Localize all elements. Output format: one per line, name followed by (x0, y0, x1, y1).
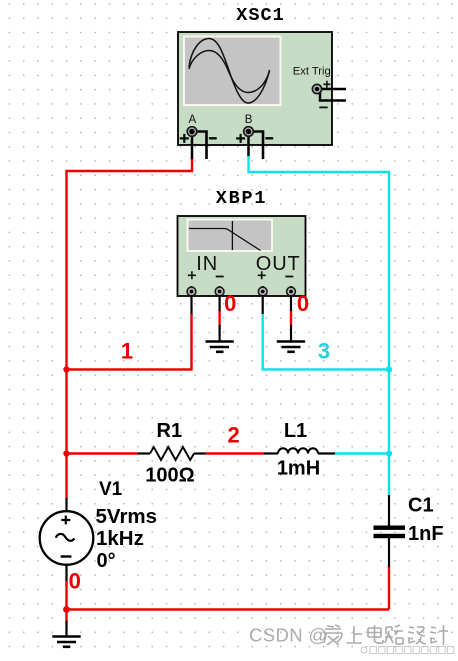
A plus sign (180, 134, 189, 143)
svg-text:L1: L1 (284, 420, 307, 442)
Ext Trig terminal (312, 84, 321, 93)
bode plot axis (231, 221, 233, 250)
oscilloscope XSC1 body (178, 32, 332, 145)
bode plotter XBP1 body (178, 216, 306, 296)
svg-text:1kHz: 1kHz (96, 527, 144, 550)
A hook lead (195, 132, 207, 160)
svg-text:IN: IN (196, 253, 218, 275)
svg-text:5Vrms: 5Vrms (96, 505, 158, 528)
V1 bottom lead black (65, 564, 67, 582)
terminal A (187, 127, 197, 137)
svg-text:0°: 0° (97, 550, 116, 572)
IN- lead black top (219, 295, 221, 312)
scope trace channel B (small sine) (189, 51, 270, 93)
OUT- wire red segment (290, 311, 292, 325)
A minus sign (209, 137, 217, 139)
wire net1: scope A to left rail (67, 159, 193, 499)
ground at IN- (206, 342, 234, 352)
svg-text:B: B (245, 114, 253, 126)
OUT plus sign (258, 271, 266, 279)
svg-text:100Ω: 100Ω (145, 465, 194, 487)
svg-text:2: 2 (227, 423, 239, 448)
B plus sign (236, 134, 245, 143)
OUT- terminal (287, 286, 296, 296)
wire net1: rail to R1 (67, 452, 138, 454)
svg-text:R1: R1 (157, 420, 183, 442)
junction dot net1 at R1 row (63, 450, 69, 456)
source V1 (40, 511, 94, 565)
junction dot net3 rail (386, 366, 392, 372)
OUT- lead black top (290, 295, 292, 312)
ground stem at V1 (65, 621, 67, 637)
wire net2: R1 to L1 (206, 452, 265, 454)
resistor R1 (138, 447, 206, 460)
IN+ lead black (190, 295, 192, 315)
junction dot net0 (63, 606, 70, 613)
inductor L1 (264, 448, 335, 453)
A plus lead (black) (191, 134, 194, 160)
svg-text:1: 1 (121, 339, 133, 364)
Ext Trig plus sign (323, 81, 330, 88)
ground at V1 (52, 637, 80, 647)
OUT+ terminal (258, 286, 267, 296)
svg-text:Ext Trig: Ext Trig (293, 66, 331, 78)
svg-text:C1: C1 (408, 495, 434, 517)
Ext Trig minus sign (319, 106, 327, 108)
V1 top lead black (65, 498, 67, 512)
svg-text:XSC1: XSC1 (236, 5, 284, 26)
wire net3: OUT+ down and right to rail (263, 314, 389, 370)
wire net1: IN+ down and left to rail (67, 314, 192, 370)
B hook lead (252, 132, 264, 160)
junction dot net1 rail (63, 366, 69, 372)
scope trace channel A (large sine) (189, 39, 270, 104)
svg-text:1mH: 1mH (277, 458, 320, 480)
svg-text:CSDN @: CSDN @ (249, 625, 328, 646)
B plus lead (black) (247, 134, 250, 157)
capacitor C1 (374, 526, 406, 539)
svg-text:1nF: 1nF (408, 523, 444, 545)
terminal B (244, 127, 254, 137)
wire net0: bottom horizontal (67, 608, 390, 610)
IN- wire red segment (218, 311, 220, 325)
Ext Trig stub wires (320, 89, 346, 101)
wire net0: V1 to bottom junction (65, 581, 67, 610)
wire net0: junction down red (65, 610, 67, 623)
IN- ground stem (219, 325, 221, 342)
junction dot net3 at L1 row (386, 450, 392, 456)
IN minus sign (216, 276, 224, 278)
watermark CJK glyphs (stylized) (324, 625, 449, 645)
IN plus sign (188, 271, 196, 279)
IN- terminal (215, 286, 224, 296)
wire net3: L1 to rail (335, 452, 389, 454)
B minus sign (265, 137, 273, 139)
OUT minus sign (285, 276, 293, 278)
svg-text:0: 0 (224, 291, 236, 316)
svg-text:3: 3 (318, 339, 330, 364)
ground at OUT- (277, 342, 305, 352)
svg-text:V1: V1 (99, 479, 123, 500)
svg-text:0: 0 (69, 569, 81, 594)
watermark CSDN (249, 625, 328, 646)
svg-text:XBP1: XBP1 (216, 188, 268, 209)
bode plot curve (189, 229, 261, 251)
svg-text:0: 0 (297, 291, 309, 316)
OUT+ lead black (262, 295, 264, 315)
wire net3: scope B to right rail (249, 156, 390, 496)
watermark small community text (361, 647, 454, 654)
wire net0: C1 bottom to corner (388, 567, 390, 610)
OUT- ground stem (290, 325, 292, 342)
IN+ terminal (187, 286, 196, 296)
C1 bottom lead black (388, 538, 390, 568)
wire net3: rail to C1 top (cyan part drawn above), C1 top lead black (388, 495, 390, 526)
svg-text:A: A (188, 114, 196, 126)
